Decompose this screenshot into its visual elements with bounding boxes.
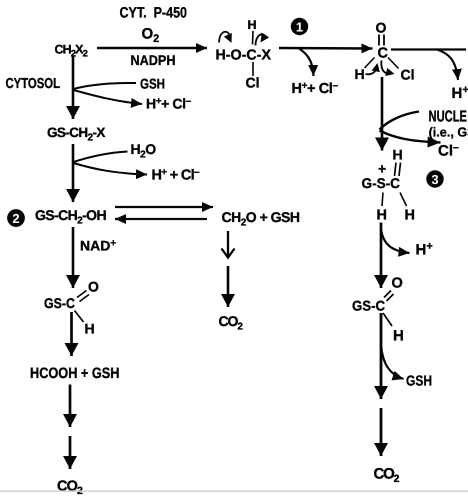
svg-text:H: H <box>377 208 387 224</box>
arrow HCOOH down <box>69 385 72 428</box>
svg-text:O: O <box>88 279 99 295</box>
arrow to CO2 middle <box>227 266 230 307</box>
arrow branch to H+ + Cl- second <box>74 163 148 175</box>
curved electron arrow H to C <box>366 67 378 74</box>
arrow to CO2 left <box>69 436 72 469</box>
arrow CHOCl down to thionium <box>381 77 384 151</box>
svg-text:H: H <box>355 66 365 82</box>
svg-text:H+: H+ <box>452 84 468 102</box>
bond C to H <box>365 58 375 69</box>
svg-text:H+ + Cl–: H+ + Cl– <box>152 167 200 184</box>
svg-text:G-S-C: G-S-C <box>362 175 401 191</box>
double bond C=O left <box>77 291 89 302</box>
wire nucleophile curve in <box>380 112 420 130</box>
arrow nucleophile curve out to Cl- <box>380 131 441 143</box>
svg-text:CO2: CO2 <box>57 479 83 498</box>
bond C to H lower-right <box>400 193 407 207</box>
bond C to H thioester <box>383 313 392 326</box>
arrow thionium down <box>380 223 383 289</box>
arrow branch to H+ loss <box>381 230 410 253</box>
svg-text:H: H <box>248 18 257 32</box>
svg-text:H+: H+ <box>416 241 433 259</box>
svg-text:H: H <box>85 321 95 337</box>
svg-text:H: H <box>393 328 404 345</box>
arrow branch to GSH release <box>381 346 404 379</box>
arrow aldehyde down <box>70 312 73 356</box>
wire C to right edge <box>391 48 466 50</box>
svg-text:CH2X2: CH2X2 <box>55 43 88 60</box>
svg-text:O: O <box>376 20 387 36</box>
svg-text:2: 2 <box>12 211 19 226</box>
svg-text:C: C <box>378 46 389 62</box>
wire GS-CH2-X down <box>72 144 75 202</box>
svg-text:GS-C: GS-C <box>44 295 75 311</box>
arrow to CO2 right <box>380 408 383 456</box>
svg-text:GSH: GSH <box>406 374 432 390</box>
arrow thioester down <box>380 313 383 399</box>
svg-text:HCOOH + GSH: HCOOH + GSH <box>30 365 120 382</box>
svg-text:H: H <box>393 147 403 163</box>
svg-text:Cl: Cl <box>246 75 260 91</box>
arrow CH2X2 to H-O-C-X (P-450 oxidation) <box>97 47 207 50</box>
curved electron arrow beside H-C bond <box>256 34 266 45</box>
bond S to H lower-left <box>382 193 383 207</box>
svg-text:GSH: GSH <box>140 76 165 92</box>
svg-text:O: O <box>392 276 403 292</box>
svg-text:NUCLE: NUCLE <box>429 109 468 126</box>
arrow equilibrium reverse <box>115 218 207 220</box>
double bond C=O thioester <box>384 291 394 302</box>
svg-text:CO2: CO2 <box>374 466 400 486</box>
arrow branch down to H+ + Cl- <box>299 49 314 77</box>
wire CH2X2 down to GS-CH2-X <box>72 57 75 120</box>
svg-text:H++ Cl–: H++ Cl– <box>146 96 192 112</box>
bond C to H left aldehyde <box>75 311 84 323</box>
svg-text:GS-CH2-X: GS-CH2-X <box>47 125 105 143</box>
bond H to C <box>252 31 255 45</box>
svg-text:H-O-C-X: H-O-C-X <box>216 48 272 64</box>
arrow branch to H+ + Cl- <box>74 90 143 104</box>
svg-text:CYTOSOL: CYTOSOL <box>6 76 61 92</box>
svg-text:(i.e., GS: (i.e., GS <box>429 125 468 140</box>
step circle 1 <box>291 18 308 35</box>
scan artifact line bottom <box>0 490 468 492</box>
svg-text:NADPH: NADPH <box>131 52 176 68</box>
svg-text:NAD+: NAD+ <box>80 238 116 254</box>
curved electron arrow C to Cl <box>381 61 387 74</box>
svg-text:GS-C: GS-C <box>352 298 385 314</box>
arrow CH2O down (open head) <box>227 231 229 256</box>
step circle 2 <box>7 209 25 227</box>
svg-text:H++ Cl–: H++ Cl– <box>292 81 339 98</box>
svg-text:Cl: Cl <box>401 67 415 83</box>
double bond O=C <box>379 35 384 46</box>
wire branch to H2O <box>74 152 128 163</box>
svg-text:Cl–: Cl– <box>438 142 459 160</box>
wire branch to GSH <box>74 83 137 89</box>
svg-text:CO2: CO2 <box>219 313 244 333</box>
svg-text:3: 3 <box>431 172 438 187</box>
arrow GS-CH2-OH down <box>72 227 75 288</box>
double bond C=H top <box>395 163 401 177</box>
svg-text:CYT. P-450: CYT. P-450 <box>120 5 188 22</box>
svg-text:1: 1 <box>296 20 303 35</box>
curved electron arrow over H-O <box>219 32 230 43</box>
bond C to Cl <box>388 58 399 69</box>
svg-text:GS-CH2-OH: GS-CH2-OH <box>35 207 106 226</box>
svg-text:H: H <box>405 208 415 224</box>
arrow equilibrium forward <box>115 206 213 208</box>
arrow branch down to H+ right <box>437 50 458 81</box>
step circle 3 <box>426 170 443 187</box>
svg-text:O2: O2 <box>142 26 160 46</box>
svg-text:H2O: H2O <box>131 141 157 160</box>
arrow H-O-C-X to CHOCl <box>279 47 373 50</box>
svg-text:CH2O + GSH: CH2O + GSH <box>222 209 300 228</box>
bond C to Cl <box>252 62 254 76</box>
